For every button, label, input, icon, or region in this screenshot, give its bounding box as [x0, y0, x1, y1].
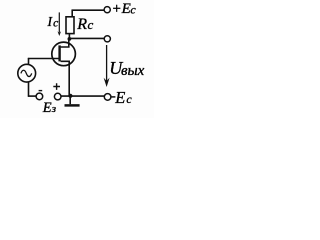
- wire resistor bottom lead: [68, 34, 70, 39]
- resistor Rc: [66, 17, 74, 34]
- transistor source lead: [61, 61, 70, 96]
- arrow Uout: [106, 45, 108, 83]
- wire output: [70, 37, 105, 39]
- svg-text:c: c: [53, 17, 58, 29]
- generator sine: [21, 70, 32, 76]
- transistor drain lead: [61, 39, 69, 47]
- transistor channel bar: [58, 45, 60, 61]
- wire to minus terminal: [28, 95, 36, 97]
- svg-text:вых: вых: [121, 63, 145, 79]
- svg-text:+E: +E: [112, 1, 131, 17]
- ground stub: [69, 96, 71, 104]
- svg-text:c: c: [126, 92, 132, 106]
- terminal plus: [54, 93, 61, 100]
- arrow Ic: [58, 12, 60, 32]
- wire top rail: [72, 9, 104, 11]
- terminal -Ec: [104, 94, 111, 101]
- wire generator bottom stub: [28, 82, 30, 97]
- svg-text:з: з: [51, 103, 56, 115]
- svg-text:E: E: [114, 88, 125, 107]
- svg-text:c: c: [130, 3, 136, 17]
- svg-text:c: c: [88, 17, 94, 32]
- minus sign: [39, 90, 43, 92]
- wire bottom rail: [61, 95, 104, 97]
- plus sign: [53, 83, 60, 90]
- wire resistor top lead: [71, 10, 73, 17]
- terminal minus: [36, 93, 43, 100]
- wire generator top stub: [28, 58, 30, 65]
- terminal +Ec: [104, 7, 110, 13]
- ground bar: [65, 104, 80, 107]
- svg-text:R: R: [76, 16, 87, 33]
- svg-text:E: E: [42, 100, 52, 116]
- node drain junction: [68, 37, 72, 41]
- terminal output: [104, 36, 110, 42]
- generator G circle: [18, 64, 36, 82]
- transistor VT circle: [52, 42, 76, 66]
- wire gate: [28, 58, 59, 60]
- label -Ec: [111, 96, 115, 98]
- node source junction: [68, 94, 72, 98]
